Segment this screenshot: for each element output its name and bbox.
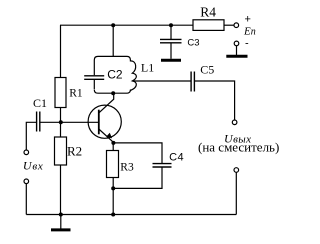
terminal output lower xyxy=(234,168,239,173)
wire tank bottom xyxy=(94,90,130,94)
svg-text:L1: L1 xyxy=(141,60,154,74)
svg-text:C2: C2 xyxy=(107,67,123,81)
node emitter junction xyxy=(111,141,115,145)
wire base node to R2 xyxy=(60,122,62,137)
svg-text:-: - xyxy=(245,38,249,50)
resistor R4 xyxy=(193,20,224,31)
node bottom rail left junction xyxy=(59,213,63,217)
wire minus terminal to ground xyxy=(236,46,238,55)
capacitor C3 xyxy=(160,39,182,42)
wire C1 to base xyxy=(40,121,98,123)
resistor R2 xyxy=(55,137,67,165)
wire input lower to bottom rail xyxy=(25,184,27,215)
capacitor C4 xyxy=(153,164,172,167)
wire C3 branch xyxy=(170,25,172,39)
node C3 junction xyxy=(169,23,173,27)
terminal output upper xyxy=(232,120,237,125)
node tank feed junction xyxy=(111,23,115,27)
wire output lower to bottom rail xyxy=(235,172,237,214)
resistor R1 xyxy=(55,78,66,108)
wire ground stub xyxy=(60,215,62,229)
wire emitter to R3 xyxy=(112,143,114,151)
wire emitter to C4 xyxy=(113,143,162,163)
wire bottom rail xyxy=(26,214,236,216)
svg-text:R2: R2 xyxy=(67,144,82,159)
capacitor C5 xyxy=(191,72,194,92)
wire top rail right of R4 xyxy=(224,24,234,26)
wire R2 to bottom rail xyxy=(60,165,62,215)
wire C5 to output terminal xyxy=(195,81,235,120)
svg-text:C3: C3 xyxy=(187,37,199,48)
wire top rail xyxy=(60,24,193,26)
wire tank feed xyxy=(112,25,114,56)
wire tank top xyxy=(94,56,130,60)
node R3 C4 junction xyxy=(111,186,115,190)
wire C4 bottom xyxy=(113,167,162,188)
wire R3 to bottom rail xyxy=(112,178,114,215)
svg-text:(на смеситель): (на смеситель) xyxy=(198,140,279,155)
wire C2 bottom lead xyxy=(93,80,95,89)
svg-text:Eп: Eп xyxy=(243,26,256,38)
wire C3 to ground xyxy=(170,43,172,59)
transistor emitter arrow xyxy=(106,133,112,139)
svg-text:+: + xyxy=(245,13,251,25)
wire R1 to base node xyxy=(60,108,62,123)
transistor base bar xyxy=(98,110,100,135)
svg-text:C5: C5 xyxy=(200,63,214,77)
svg-text:Uвх: Uвх xyxy=(23,159,44,173)
resistor R3 xyxy=(107,151,119,178)
wire C2 top lead xyxy=(93,60,95,75)
ground at C3 xyxy=(161,59,181,62)
svg-text:C4: C4 xyxy=(169,151,184,163)
svg-text:C1: C1 xyxy=(33,96,47,110)
capacitor C1 xyxy=(37,112,40,132)
node collector junction xyxy=(111,91,115,95)
terminal + En xyxy=(234,23,239,28)
node R3 bottom rail junction xyxy=(111,213,115,217)
svg-text:R3: R3 xyxy=(120,162,134,174)
inductor L1 xyxy=(130,60,136,90)
transistor emitter lead xyxy=(99,129,114,143)
wire input to C1 xyxy=(26,122,36,150)
terminal - En xyxy=(234,41,239,46)
svg-text:R1: R1 xyxy=(69,88,83,100)
wire left branch top xyxy=(60,25,62,77)
ground at En minus xyxy=(226,55,247,58)
ground main xyxy=(51,228,71,231)
node base junction xyxy=(59,120,63,124)
wire L1 tap to C5 xyxy=(132,80,190,82)
svg-text:R4: R4 xyxy=(200,5,216,20)
terminal input lower xyxy=(24,179,29,184)
transistor collector lead xyxy=(99,93,114,113)
terminal input upper xyxy=(24,150,29,155)
transistor VT circle xyxy=(88,105,121,138)
capacitor C2 xyxy=(84,76,104,80)
